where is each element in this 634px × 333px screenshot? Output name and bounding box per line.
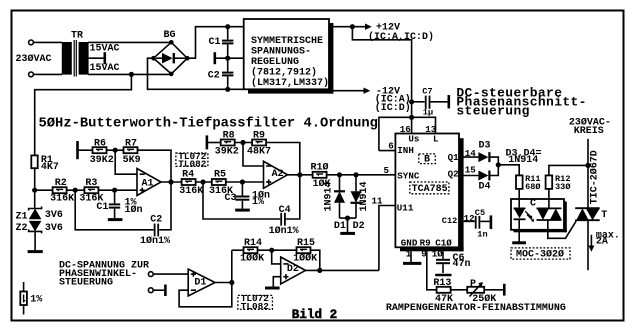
node R6 R7 xyxy=(113,148,118,153)
svg-text:48K7: 48K7 xyxy=(247,146,271,157)
wire pin6 stub xyxy=(379,150,396,152)
svg-text:39K2: 39K2 xyxy=(90,155,114,166)
wire pin14 stub xyxy=(459,156,478,158)
wire center tap xyxy=(88,57,104,59)
wire node to zener xyxy=(34,190,36,208)
ground xyxy=(28,250,43,253)
svg-text:4K7: 4K7 xyxy=(41,162,59,173)
op-amp A1 xyxy=(137,169,161,196)
op-amp D2 xyxy=(281,257,306,284)
svg-text:GND: GND xyxy=(401,238,418,249)
resistor R6 xyxy=(90,138,114,166)
svg-text:R14: R14 xyxy=(244,238,262,249)
svg-text:2A: 2A xyxy=(596,237,608,248)
terminal bar reference xyxy=(164,285,167,297)
wire +12V feed to pin16 13 xyxy=(352,27,411,118)
node C1 top xyxy=(225,24,230,29)
wire bar to R6 xyxy=(78,149,93,151)
wire pin15 stub xyxy=(459,175,478,177)
wire C4 right xyxy=(286,175,300,219)
svg-text:U11: U11 xyxy=(397,203,414,214)
ground C3 xyxy=(235,209,250,212)
capacitor C6 xyxy=(436,253,471,273)
svg-text:1N914: 1N914 xyxy=(323,181,334,211)
svg-text:15: 15 xyxy=(465,165,477,176)
diode D1 1N914 xyxy=(323,175,346,232)
node C7 left xyxy=(409,99,414,104)
wire R4 R5 xyxy=(196,181,212,183)
wire R10 to SYNC xyxy=(327,174,396,176)
svg-text:A2: A2 xyxy=(272,169,284,180)
node C1 C2 mid xyxy=(225,56,230,61)
svg-text:(LM317,LM337): (LM317,LM337) xyxy=(251,77,329,89)
wire to ground xyxy=(347,218,349,232)
wire R8R9 node to A2 minus xyxy=(243,143,264,167)
terminal input voltage xyxy=(148,272,153,277)
capacitor C4 xyxy=(269,205,299,237)
svg-text:C1Ø: C1Ø xyxy=(435,238,452,249)
op-amp D1 xyxy=(188,269,215,296)
wire R9 to A2 output xyxy=(266,143,300,175)
arrow -12V xyxy=(364,88,371,94)
node A1 out xyxy=(168,179,173,184)
svg-text:STEUERUNG: STEUERUNG xyxy=(59,278,113,289)
svg-text:C7: C7 xyxy=(422,87,432,97)
label MOC-3020 xyxy=(511,248,570,261)
potentiometer P 250K xyxy=(467,279,496,305)
svg-text:D2: D2 xyxy=(353,221,365,232)
svg-text:3V6: 3V6 xyxy=(45,210,63,221)
svg-text:1ØØK: 1ØØK xyxy=(240,253,264,265)
capacitor C2 xyxy=(208,58,234,89)
heading DC-steuerbare Phasenanschnittsteuerung xyxy=(456,85,586,118)
svg-text:R7: R7 xyxy=(125,138,137,149)
wire D4 to node xyxy=(489,165,498,176)
wire input to D1 plus xyxy=(153,273,188,275)
capacitor C7 xyxy=(412,87,448,118)
triac T xyxy=(575,208,607,221)
wire bar to R8 xyxy=(207,142,221,144)
svg-text:D1: D1 xyxy=(334,221,346,232)
svg-text:R9: R9 xyxy=(253,130,265,141)
wire to R14 xyxy=(232,249,244,251)
node secondary bottom junction xyxy=(129,72,134,77)
wire D2 plus to ground xyxy=(273,277,280,287)
wire pin1 gnd stub xyxy=(410,251,412,262)
wire pin11 route from D2 xyxy=(379,206,396,271)
wire zener to ground xyxy=(34,231,36,250)
svg-text:23ØVAC: 23ØVAC xyxy=(16,53,52,65)
node D2 out xyxy=(317,268,322,273)
svg-text:39K2: 39K2 xyxy=(215,146,239,157)
wire node to R2 xyxy=(35,189,53,191)
wire C4 left xyxy=(203,182,280,219)
wire triac down xyxy=(587,220,589,270)
wire D2 out xyxy=(306,269,379,271)
node R8 R9 xyxy=(240,140,245,145)
ic type box TL072 TL082 lower xyxy=(238,293,273,312)
label DC-SPANNUNG ZUR PHASENWINKEL-STEUERUNG xyxy=(59,261,149,289)
svg-text:SYNC: SYNC xyxy=(397,170,420,181)
node R4 R5 xyxy=(200,179,205,184)
svg-text:5ØHz-Butterworth-Tiefpassfilte: 5ØHz-Butterworth-Tiefpassfilter 4.Ordnun… xyxy=(39,116,378,132)
svg-text:Q2: Q2 xyxy=(448,168,459,179)
node R5 C3 xyxy=(240,179,245,184)
wire secondary top xyxy=(88,41,172,43)
dotted box TCA785 xyxy=(410,182,449,195)
wire R12 bottom into MOC xyxy=(548,189,550,209)
node A2 out xyxy=(297,172,302,177)
wire pin16 stub xyxy=(411,117,413,133)
wire R11 bottom into MOC xyxy=(518,189,520,208)
svg-text:1%: 1% xyxy=(252,197,264,208)
wire +12V out xyxy=(333,26,366,28)
wire A2 out xyxy=(288,174,313,176)
wire mid rail xyxy=(215,57,244,59)
wire LED cathode down xyxy=(518,219,520,241)
svg-text:(IC:A,IC:D): (IC:A,IC:D) xyxy=(368,31,434,43)
svg-text:D4: D4 xyxy=(479,181,491,192)
svg-text:TR: TR xyxy=(71,31,83,42)
wire pin10 stub xyxy=(442,251,444,258)
resistor R10 xyxy=(311,161,331,190)
svg-text:Us: Us xyxy=(408,134,419,145)
capacitor C2 filter xyxy=(140,215,170,248)
node C2 bottom xyxy=(225,87,230,92)
wire R6 R7 xyxy=(107,149,124,151)
node D1 out xyxy=(229,280,234,285)
wire A1 out xyxy=(161,181,182,183)
resistor R1 xyxy=(31,155,59,173)
wire C2 feedback left xyxy=(75,190,153,230)
wire R6R7 node to A1 minus xyxy=(115,150,137,174)
resistor R3 xyxy=(79,178,103,205)
ic U1 TCA785 body xyxy=(395,134,459,248)
svg-text:68Ø: 68Ø xyxy=(525,182,540,192)
wire R7 to A1 output xyxy=(138,150,172,182)
svg-text:C: C xyxy=(530,198,536,209)
wire D3 to node xyxy=(489,157,498,165)
svg-text:SPANNUNGS-: SPANNUNGS- xyxy=(251,47,311,58)
wire node to R11 xyxy=(498,165,519,176)
wire R8 R9 xyxy=(235,142,252,144)
resistor R12 xyxy=(546,174,571,192)
wire node to D2 minus xyxy=(272,250,281,264)
svg-text:1Øn1%: 1Øn1% xyxy=(269,225,299,237)
svg-text:1Øn: 1Øn xyxy=(125,204,143,216)
resistor R15 xyxy=(293,238,317,265)
svg-text:C1: C1 xyxy=(209,37,221,48)
svg-text:C12: C12 xyxy=(442,216,457,226)
ground C1 xyxy=(108,218,123,221)
wire primary bottom xyxy=(34,73,63,75)
svg-text:R6: R6 xyxy=(94,138,106,149)
svg-text:RAMPENGENERATOR-FEINABSTIMMUNG: RAMPENGENERATOR-FEINABSTIMMUNG xyxy=(386,303,566,314)
svg-text:R4: R4 xyxy=(182,169,194,180)
optocoupler MOC box xyxy=(511,199,564,230)
wire 230VAC vertical xyxy=(587,139,589,208)
node bracket pin16 xyxy=(409,115,414,120)
ic U1 TCA785 shadow xyxy=(459,138,464,251)
LED in MOC xyxy=(514,208,535,221)
svg-text:R15: R15 xyxy=(297,238,315,249)
terminal bar R8 input xyxy=(206,135,209,149)
svg-text:15VAC: 15VAC xyxy=(90,63,120,74)
svg-text:316K: 316K xyxy=(50,194,74,205)
svg-text:Z2: Z2 xyxy=(16,223,28,234)
svg-text:Q1: Q1 xyxy=(448,152,460,163)
svg-text:T: T xyxy=(601,210,607,221)
node R3 C1 xyxy=(112,188,117,193)
resistor R13 xyxy=(433,278,453,305)
wire to bar xyxy=(153,289,164,291)
wire R2 R3 xyxy=(67,189,85,191)
wire pin16 pin13 bracket xyxy=(379,117,436,150)
svg-text:TCA785: TCA785 xyxy=(412,184,448,195)
regulator box shadow xyxy=(329,23,333,94)
ground LED xyxy=(512,241,526,244)
node 230VAC R12 xyxy=(585,163,590,168)
op-amp A2 xyxy=(264,161,288,188)
opto triac in MOC xyxy=(537,208,562,220)
svg-text:1%: 1% xyxy=(30,295,42,306)
terminal bar P right xyxy=(503,284,506,296)
arrow max 2A xyxy=(588,230,620,252)
svg-text:(7812,7912): (7812,7912) xyxy=(251,67,317,79)
wire D1 D2 join xyxy=(340,217,357,219)
svg-text:1Ø: 1Ø xyxy=(432,249,444,260)
svg-text:steuerung: steuerung xyxy=(456,104,529,119)
svg-text:SYMMETRISCHE: SYMMETRISCHE xyxy=(251,36,323,47)
node R14 R15 xyxy=(269,248,274,253)
ground pin1 xyxy=(403,262,421,265)
wire R13 to P xyxy=(451,289,468,291)
zener Z2 xyxy=(16,221,63,234)
wire R14 R15 xyxy=(258,249,297,251)
wire R1 to node xyxy=(34,168,36,190)
svg-text:9: 9 xyxy=(421,249,427,260)
resistor R2 xyxy=(50,178,74,205)
svg-text:C2: C2 xyxy=(208,71,220,82)
svg-text:C1: C1 xyxy=(96,202,108,213)
svg-text:R8: R8 xyxy=(223,130,235,141)
dotted box B xyxy=(419,154,436,166)
capacitor C3 xyxy=(225,182,271,209)
wire D1 feedback xyxy=(179,283,232,307)
resistor R8 xyxy=(215,130,239,157)
diode D3 xyxy=(478,141,490,163)
svg-text:R9: R9 xyxy=(420,238,431,249)
svg-text:33Ø: 33Ø xyxy=(555,182,570,192)
resistor R7 xyxy=(123,138,141,166)
diode D4 xyxy=(478,171,490,193)
ground D1 D2 xyxy=(340,232,355,235)
svg-text:INH: INH xyxy=(397,145,414,156)
svg-text:C3: C3 xyxy=(225,193,237,204)
arrow +12V xyxy=(365,24,372,30)
svg-text:(IC:D): (IC:D) xyxy=(375,102,411,114)
svg-text:Bild 2: Bild 2 xyxy=(292,308,337,322)
legend resistor 1 percent xyxy=(20,282,42,315)
resistor R11 xyxy=(516,174,541,192)
wire R3 to A1 plus xyxy=(98,189,137,191)
svg-text:KREIS: KREIS xyxy=(574,126,604,137)
wire D1 out up to R14 xyxy=(231,250,233,282)
resistor R4 xyxy=(179,169,203,197)
svg-text:1N914: 1N914 xyxy=(359,181,370,211)
svg-text:316K: 316K xyxy=(179,186,203,197)
svg-text:TL082: TL082 xyxy=(241,301,270,312)
svg-text:Z1: Z1 xyxy=(16,211,28,222)
svg-text:A1: A1 xyxy=(142,178,154,189)
wire primary top xyxy=(34,41,63,43)
wire pin9 stub to R13 xyxy=(427,251,437,289)
resistor R9 xyxy=(247,130,271,157)
wire pin12 stub xyxy=(459,220,475,222)
wire opto triac out to gate xyxy=(548,220,576,238)
wire C2 feedback right xyxy=(159,182,171,230)
terminal bar C7 right xyxy=(447,95,450,108)
svg-text:1ØØK: 1ØØK xyxy=(293,253,317,265)
svg-text:R5: R5 xyxy=(214,169,226,180)
terminal input reference xyxy=(148,288,153,293)
ic type box TL072 TL082 upper xyxy=(176,151,208,169)
svg-text:1µ: 1µ xyxy=(423,108,433,118)
terminal bar C5 right xyxy=(490,215,493,229)
terminal 230VAC top xyxy=(29,40,34,45)
wire bridge minus to rail xyxy=(148,58,244,89)
svg-text:3V6: 3V6 xyxy=(45,223,63,234)
svg-text:L: L xyxy=(433,134,439,145)
diode D2 1N914 xyxy=(351,175,371,232)
ground D2 plus xyxy=(265,287,280,290)
svg-text:R2: R2 xyxy=(55,178,67,189)
node D1 D2 xyxy=(345,216,350,221)
svg-text:R3: R3 xyxy=(85,178,97,189)
capacitor C1 filter xyxy=(96,190,142,218)
zener Z1 xyxy=(16,207,63,223)
transformer TR xyxy=(62,31,89,77)
node D3 D4 xyxy=(496,162,501,167)
svg-text:BG: BG xyxy=(164,30,176,41)
wire P to bar xyxy=(484,289,503,291)
capacitor C5 xyxy=(475,208,490,239)
svg-text:6: 6 xyxy=(388,141,394,152)
terminal bar center tap xyxy=(104,52,107,64)
svg-text:D3: D3 xyxy=(479,141,491,152)
svg-text:47n: 47n xyxy=(453,259,471,270)
capacitor C1 xyxy=(209,27,234,59)
node D2 anode xyxy=(353,172,358,177)
wire R5 to A2 plus xyxy=(226,181,264,183)
terminal bar 0V xyxy=(214,52,217,64)
wire bridge plus to rail xyxy=(187,27,243,59)
svg-text:D1: D1 xyxy=(194,278,206,289)
svg-text:1n: 1n xyxy=(477,230,487,240)
wire R15 to D2 out xyxy=(311,250,320,270)
svg-text:P: P xyxy=(470,279,476,290)
node D1 anode xyxy=(337,172,342,177)
terminal 230VAC bottom xyxy=(29,72,34,77)
node filter input xyxy=(32,188,37,193)
svg-text:5: 5 xyxy=(384,165,390,176)
regulator box U-REG xyxy=(244,19,329,89)
svg-text:5K9: 5K9 xyxy=(123,155,141,166)
terminal bar R6 input xyxy=(76,141,79,159)
svg-text:R1Ø: R1Ø xyxy=(311,161,329,173)
svg-text:TL082: TL082 xyxy=(178,158,207,169)
wire D1 out xyxy=(215,282,232,284)
optocoupler MOC box shadow xyxy=(564,202,567,233)
node R2 R3 xyxy=(73,188,78,193)
resistor R5 xyxy=(209,169,233,197)
svg-text:C2: C2 xyxy=(150,215,162,226)
wire secondary bottom xyxy=(88,73,172,75)
wire R12 top to 230VAC line xyxy=(549,165,588,175)
wire -12V out xyxy=(333,90,364,92)
svg-text:TIC-2Ø67D: TIC-2Ø67D xyxy=(589,150,601,204)
svg-text:MOC-3Ø2Ø: MOC-3Ø2Ø xyxy=(516,249,564,261)
bridge rectifier BG xyxy=(151,30,189,76)
svg-text:REGELUNG: REGELUNG xyxy=(251,57,299,68)
svg-text:D2: D2 xyxy=(287,264,299,275)
svg-text:R13: R13 xyxy=(433,278,451,289)
resistor R14 xyxy=(240,238,264,265)
terminal bar C6 bottom xyxy=(435,274,451,277)
svg-text:1Øn1%: 1Øn1% xyxy=(140,235,170,247)
wire to filter input xyxy=(35,74,132,155)
svg-text:B: B xyxy=(424,155,430,166)
node +12V xyxy=(350,24,355,29)
